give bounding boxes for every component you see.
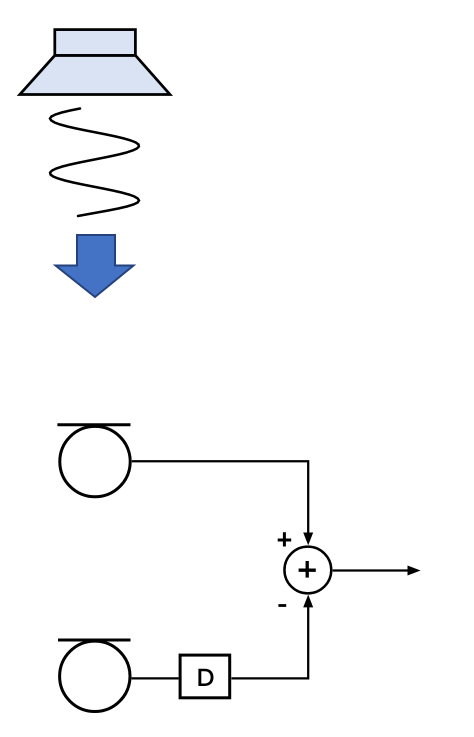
microphone M2: [58, 640, 131, 712]
wire from M1 to summing junction: [132, 461, 308, 535]
summing junction U1: [284, 547, 331, 594]
speaker driver (rectangle): [55, 30, 136, 56]
output arrowhead: [408, 566, 421, 576]
minus label (bottom input): [278, 604, 286, 607]
arrowhead into summing junction bottom: [303, 595, 313, 608]
microphone M1 top line: [57, 423, 130, 426]
speaker cone (trapezoid): [20, 55, 170, 94]
sound wave W1: [50, 109, 139, 217]
wire from delay block to summing junction: [232, 605, 309, 678]
delay block D: [180, 655, 230, 698]
microphone M2 top line: [58, 639, 131, 642]
plus sign inside summing junction: [299, 561, 316, 578]
output wire: [333, 569, 409, 571]
label D: [198, 669, 213, 686]
block arrow A1 (down): [56, 235, 134, 297]
microphone M2 body circle: [60, 641, 130, 711]
microphone M1 body circle: [60, 426, 130, 496]
plus label (top input): [278, 532, 292, 546]
arrowhead into summing junction top: [303, 533, 313, 546]
wire from M2 to delay block: [132, 677, 179, 679]
speaker SPK1: [20, 30, 170, 95]
microphone M1: [57, 425, 130, 497]
